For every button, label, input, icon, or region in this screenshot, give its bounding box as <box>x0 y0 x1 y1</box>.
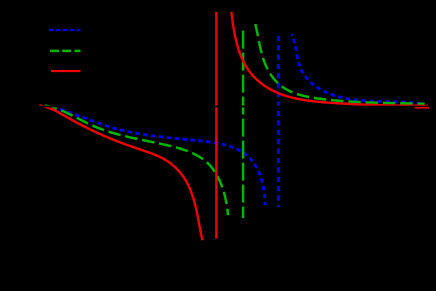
legend sample red solid <box>51 70 81 72</box>
legend sample green dashed <box>50 50 81 53</box>
blue curve left branch <box>53 107 265 205</box>
green vertical asymptote <box>242 31 245 218</box>
green curve right branch <box>255 24 424 104</box>
red vertical asymptote <box>215 12 217 239</box>
blue curve right branch <box>292 34 423 104</box>
red horizontal segment right <box>415 107 429 109</box>
red curve right branch <box>231 12 428 106</box>
green curve left branch <box>45 106 228 216</box>
legend sample blue dotted <box>49 29 81 31</box>
blue vertical asymptote <box>277 36 280 207</box>
black horizontal axis line y=1 <box>38 106 431 108</box>
red curve left branch <box>39 105 202 240</box>
